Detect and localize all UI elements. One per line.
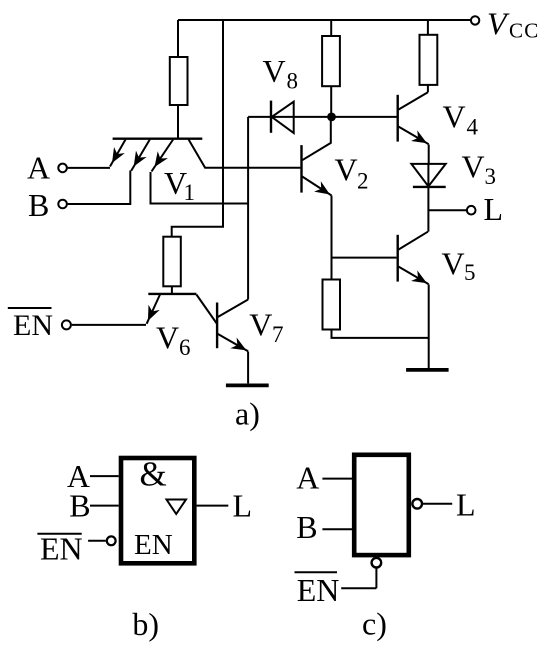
svg-text:B: B	[28, 187, 49, 223]
svg-text:c): c)	[362, 606, 387, 642]
svg-text:EN: EN	[13, 309, 53, 342]
svg-text:V: V	[487, 6, 510, 42]
svg-text:7: 7	[272, 322, 284, 347]
svg-text:V: V	[249, 307, 272, 343]
svg-text:A: A	[296, 460, 319, 496]
svg-text:V: V	[263, 53, 286, 89]
svg-text:3: 3	[485, 164, 497, 189]
svg-text:b): b)	[132, 606, 159, 642]
svg-text:L: L	[233, 488, 253, 524]
svg-text:B: B	[296, 509, 317, 545]
svg-text:EN: EN	[40, 531, 83, 567]
svg-text:EN: EN	[134, 529, 173, 561]
svg-text:V: V	[443, 99, 466, 135]
svg-text:L: L	[484, 191, 504, 227]
svg-text:6: 6	[179, 335, 191, 360]
svg-text:EN: EN	[297, 572, 340, 608]
svg-text:5: 5	[464, 260, 476, 285]
svg-text:CC: CC	[509, 19, 539, 43]
svg-text:V: V	[442, 245, 465, 281]
svg-text:L: L	[456, 486, 476, 522]
svg-text:V: V	[335, 152, 358, 188]
svg-text:V: V	[462, 148, 485, 184]
svg-text:A: A	[27, 150, 50, 186]
svg-text:&: &	[140, 454, 167, 493]
svg-text:V: V	[156, 320, 179, 356]
svg-text:1: 1	[184, 180, 196, 205]
svg-text:a): a)	[235, 396, 260, 432]
svg-text:B: B	[69, 488, 90, 524]
svg-text:4: 4	[467, 115, 479, 140]
svg-text:2: 2	[357, 168, 369, 193]
svg-text:8: 8	[287, 69, 299, 94]
